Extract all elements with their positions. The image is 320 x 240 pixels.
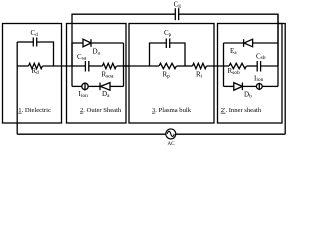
- resistor Rsob: [229, 63, 246, 68]
- wire block4 bottom mid: [242, 85, 256, 87]
- wire block4 right rail: [277, 14, 279, 86]
- svg-text:Iion: Iion: [79, 90, 89, 99]
- wire block4 left rail: [223, 43, 225, 86]
- svg-text:1. Dielectric: 1. Dielectric: [18, 107, 51, 114]
- current source Iion (inner): [256, 83, 262, 90]
- diode Ea (top, pointing left): [244, 39, 253, 47]
- svg-text:Csb: Csb: [256, 52, 266, 61]
- wire block1 top branch right: [37, 42, 54, 66]
- wire block2 right rail: [123, 43, 125, 86]
- box 2. Outer Sheath: [67, 24, 127, 124]
- wire block4 main mid: [247, 65, 258, 67]
- resistor Rd: [29, 63, 43, 68]
- wire block2 main left: [72, 65, 85, 67]
- wire block4 bottom branch left: [224, 85, 234, 87]
- wire block1 top branch: [17, 41, 33, 43]
- capacitor Csb: [257, 61, 260, 72]
- wire block2 top branch right: [91, 42, 124, 44]
- svg-text:Cp: Cp: [164, 29, 172, 38]
- wire main block1 to block2: [43, 65, 73, 67]
- AC source circle: [166, 129, 176, 139]
- current source Iion (outer): [82, 82, 88, 90]
- capacitor Cp: [166, 39, 169, 49]
- svg-text:Da: Da: [102, 90, 110, 99]
- wire block3 main left: [124, 65, 160, 67]
- wire block2 top branch: [72, 42, 83, 44]
- box 4. Inner sheath: [218, 24, 283, 124]
- capacitor Cg: [175, 8, 178, 20]
- svg-text:Iion: Iion: [254, 74, 264, 83]
- wire left rail down to source: [16, 42, 18, 134]
- box 3. Plasma bulk: [129, 24, 214, 124]
- box 1. Dielectric: [3, 24, 62, 124]
- svg-text:AC: AC: [168, 142, 176, 147]
- svg-text:2′. Inner sheath: 2′. Inner sheath: [221, 107, 262, 114]
- wire block2 left rail: [71, 43, 73, 86]
- svg-text:2. Outer Sheath: 2. Outer Sheath: [80, 107, 122, 114]
- diode Da (top, pointing right): [83, 39, 91, 47]
- wire block4 main right: [261, 65, 278, 67]
- svg-text:Ri: Ri: [196, 71, 203, 80]
- wire block2 bottom mid: [88, 85, 100, 87]
- wire block3 loop right: [170, 43, 185, 66]
- wire block3 to block4: [207, 65, 230, 67]
- capacitor Cd: [33, 38, 36, 47]
- diode Da (bottom, pointing left): [100, 83, 110, 91]
- wire block4 bottom right: [262, 85, 278, 87]
- wire Cg to right rail: [179, 14, 278, 66]
- capacitor Csa: [85, 61, 88, 72]
- resistor Rp: [159, 63, 176, 68]
- wire block2 bottom branch left: [72, 85, 82, 87]
- svg-text:Db: Db: [244, 91, 252, 100]
- wire block3 main mid: [177, 65, 193, 67]
- svg-text:Cg: Cg: [174, 0, 182, 9]
- resistor Ri: [193, 63, 207, 68]
- svg-text:Ea: Ea: [230, 47, 237, 56]
- wire block2 main right: [117, 65, 129, 67]
- wire block3 loop left: [150, 43, 167, 66]
- wire block2 bottom right: [110, 85, 124, 87]
- svg-text:Rsoa: Rsoa: [102, 71, 115, 80]
- resistor Rsoa: [102, 63, 116, 68]
- svg-text:Rp: Rp: [163, 71, 171, 80]
- svg-text:Da: Da: [93, 48, 101, 57]
- wire bottom to AC source: [17, 133, 285, 135]
- wire Cg loop top: [72, 14, 175, 66]
- svg-text:Rd: Rd: [32, 67, 40, 76]
- AC source sine: [167, 131, 174, 136]
- svg-text:Csa: Csa: [77, 53, 87, 62]
- svg-text:3. Plasma bulk: 3. Plasma bulk: [152, 107, 192, 114]
- wire block1 main left: [17, 65, 28, 67]
- wire block2 main mid: [89, 65, 102, 67]
- wire right rail to source: [278, 24, 285, 135]
- diode Db (bottom, pointing right): [234, 83, 243, 91]
- wire block4 top branch left: [224, 42, 244, 44]
- wire block4 top branch right: [253, 42, 278, 44]
- svg-text:Cd: Cd: [31, 29, 39, 38]
